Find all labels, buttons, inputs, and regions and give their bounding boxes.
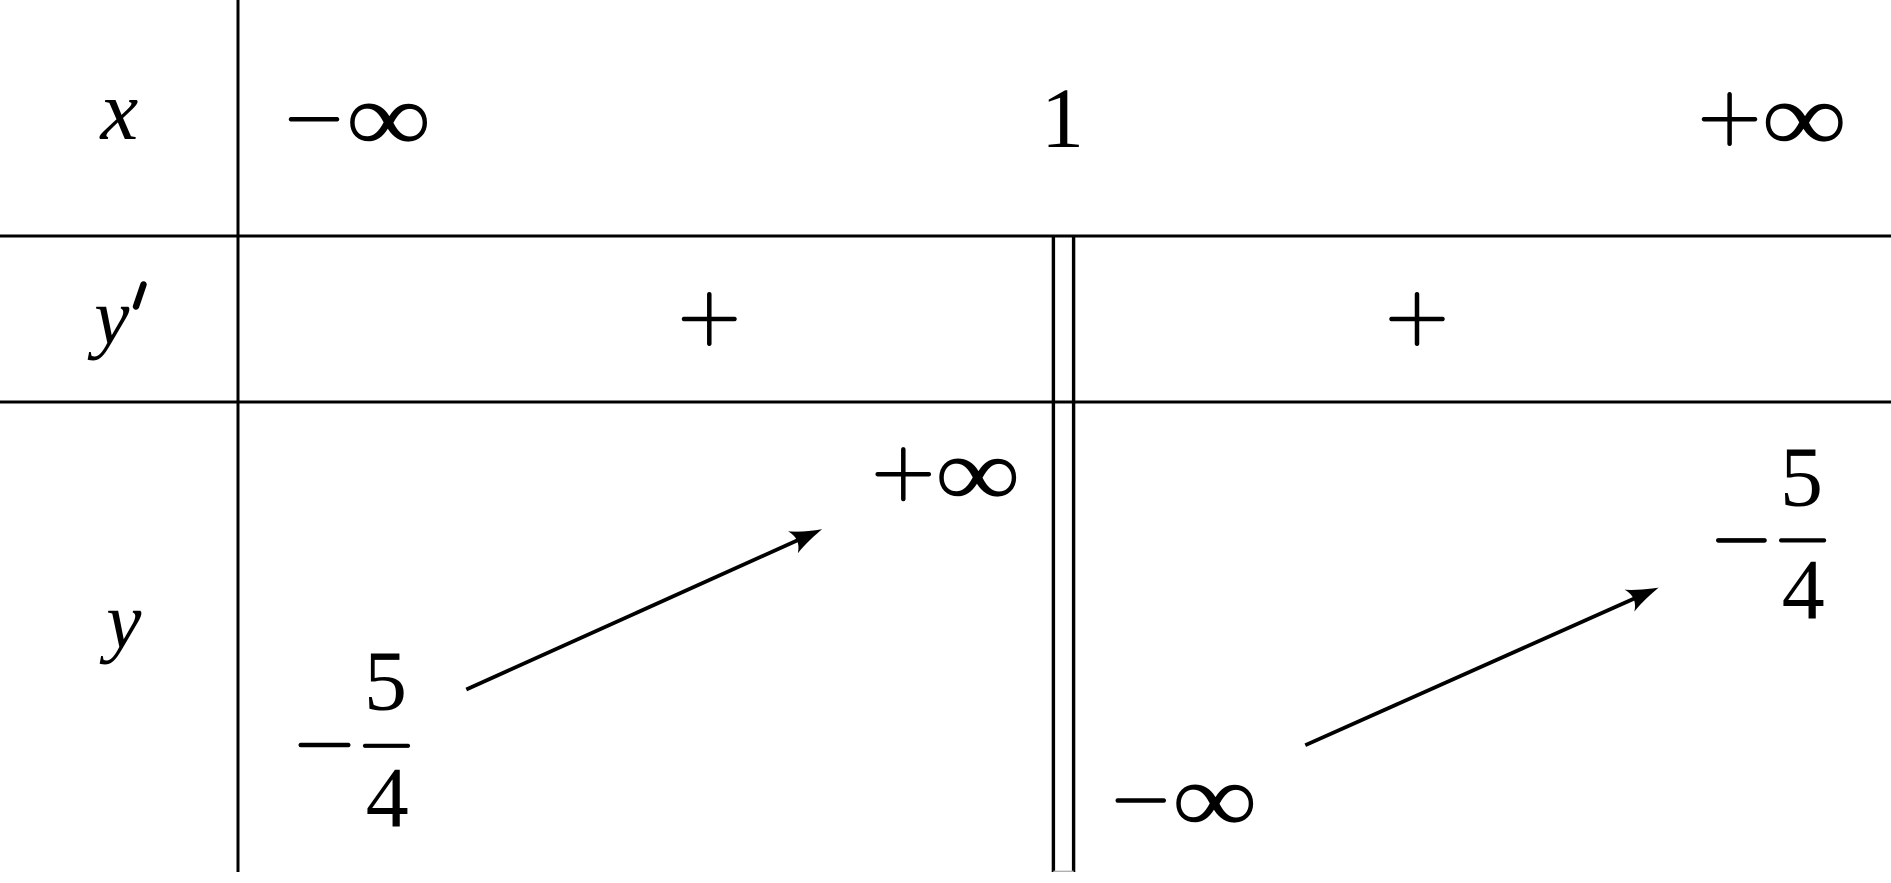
plus sign of +infinity (x row right) horizontal stroke	[1704, 117, 1755, 122]
increasing arrow (left cell) shaft	[466, 533, 815, 690]
minus sign of -5/4 (top right)	[1718, 538, 1764, 543]
svg-text:4: 4	[366, 750, 409, 846]
svg-text:5: 5	[364, 632, 407, 728]
increasing arrow (left cell) head	[788, 518, 827, 553]
increasing arrow (right cell) head	[1625, 577, 1664, 612]
svg-text:∞: ∞	[1761, 62, 1847, 173]
plus sign of +infinity (y row, left of bar) vertical stroke	[901, 449, 906, 499]
svg-text:5: 5	[1780, 429, 1823, 525]
svg-text:∞: ∞	[346, 62, 432, 173]
svg-text:y: y	[99, 578, 142, 665]
plus sign in y' row (left cell) horizontal stroke	[684, 317, 735, 322]
derivative label y' : prime tick	[136, 285, 144, 307]
row separator under y' row	[0, 401, 1891, 404]
faint closing rule between double bars at bottom	[1053, 870, 1073, 872]
plus sign in y' row (left cell) vertical stroke	[707, 294, 712, 344]
fraction bar of -5/4 (bottom left)	[365, 744, 408, 748]
plus sign of +infinity (x row right) vertical stroke	[1727, 94, 1732, 144]
svg-text:4: 4	[1782, 542, 1825, 638]
increasing arrow (right cell) shaft	[1305, 591, 1651, 745]
svg-text:x: x	[99, 64, 139, 158]
plus sign of +infinity (y row, left of bar) horizontal stroke	[878, 472, 929, 477]
svg-text:∞: ∞	[935, 417, 1021, 528]
double vertical bar at x=1 (right stroke)	[1072, 236, 1075, 872]
minus sign of -infinity (x row left)	[291, 117, 337, 122]
plus sign in y' row (right cell) horizontal stroke	[1392, 317, 1443, 322]
label column separator (vertical line)	[237, 0, 240, 872]
svg-text:y: y	[87, 274, 130, 361]
minus sign of -infinity (y row, right of bar)	[1118, 798, 1164, 803]
svg-text:∞: ∞	[1172, 743, 1258, 854]
svg-text:1: 1	[1041, 70, 1084, 166]
row separator under x row	[0, 235, 1891, 238]
plus sign in y' row (right cell) vertical stroke	[1415, 294, 1420, 344]
double vertical bar at x=1 (left stroke)	[1052, 236, 1055, 872]
minus sign of -5/4 (bottom left)	[301, 743, 348, 748]
fraction bar of -5/4 (top right)	[1781, 538, 1824, 542]
